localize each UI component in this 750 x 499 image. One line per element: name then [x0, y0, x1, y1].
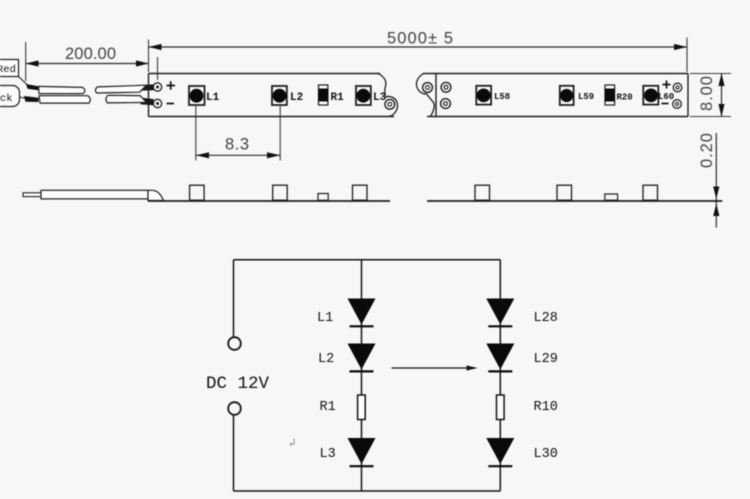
- side bump R1: [318, 194, 328, 201]
- svg-text:L28: L28: [534, 311, 558, 326]
- svg-text:200.00: 200.00: [65, 45, 116, 63]
- svg-text:L29: L29: [534, 352, 558, 367]
- strip piece 1 break (right torn edge): [379, 74, 386, 96]
- side view end cap: [148, 190, 164, 200]
- side view cable stub: [23, 193, 41, 197]
- extension line at strip left edge: [148, 40, 150, 73]
- minus mark right end: [662, 103, 669, 105]
- wire crimp black: [24, 96, 39, 102]
- red wire segment 1: [39, 86, 85, 93]
- schematic top wire: [234, 259, 501, 261]
- callout leader Red: [19, 77, 29, 86]
- svg-text:L3: L3: [320, 447, 336, 462]
- terminal center extension line: [157, 57, 159, 80]
- svg-text:L60: L60: [658, 92, 674, 102]
- dimension 200.00 extension line left: [25, 42, 27, 81]
- side bump L59: [557, 185, 572, 200]
- dimension 8.00 extension bottom: [690, 116, 731, 118]
- side view strip base right piece: [427, 200, 722, 202]
- side bump L1: [190, 185, 205, 200]
- black wire segment 2: [106, 95, 147, 103]
- break donut on piece 1: [385, 99, 395, 109]
- svg-text:R20: R20: [617, 93, 633, 103]
- LED L60: [643, 86, 658, 105]
- solder blob + terminal: [141, 84, 154, 90]
- DC source terminal lower: [228, 402, 241, 415]
- diode L1: [348, 299, 376, 325]
- continuation arrow: [392, 367, 475, 369]
- terminal pad - (left end): [153, 99, 161, 107]
- svg-text:L59: L59: [578, 92, 594, 102]
- diode L30: [486, 438, 514, 464]
- dimension 200.00 line: [26, 63, 149, 65]
- black wire segment 1: [39, 96, 90, 103]
- dimension 5000 line: [149, 46, 688, 48]
- svg-text:L58: L58: [494, 92, 510, 102]
- svg-text:L2: L2: [318, 352, 334, 367]
- diode L28: [486, 299, 514, 325]
- terminal pad + (left end): [153, 83, 161, 91]
- strip piece 2 break (left torn edge): [416, 74, 434, 117]
- dimension 8.3 extension line from L2: [279, 105, 281, 161]
- svg-text:L30: L30: [534, 447, 558, 462]
- plus mark right end: [663, 81, 671, 89]
- callout box Black: [0, 86, 20, 107]
- callout leader Black: [20, 97, 27, 99]
- resistor R10 (schematic): [497, 395, 505, 420]
- side bump R20: [605, 194, 618, 200]
- side bump L3: [353, 185, 368, 200]
- break donut on piece 2: [423, 83, 433, 93]
- svg-text:0.20: 0.20: [698, 133, 716, 168]
- red wire segment 2: [95, 85, 146, 93]
- diode L3: [348, 438, 376, 464]
- terminal pad + (right end): [673, 83, 682, 92]
- terminal pad piece2 upper: [441, 82, 451, 92]
- terminal pad - (right end): [673, 100, 682, 109]
- svg-text:↲: ↲: [289, 438, 296, 450]
- side bump L58: [475, 185, 490, 200]
- LED L1: [189, 86, 205, 105]
- LED L2: [272, 86, 287, 105]
- solder blob - terminal: [141, 98, 154, 106]
- dimension 200.00 arrow left: [26, 60, 39, 66]
- svg-text:DC 12V: DC 12V: [206, 374, 270, 394]
- dimension 0.20 arrow lower: [713, 204, 719, 217]
- dimension 5000 arrow left: [149, 44, 162, 50]
- dimension 200.00 arrow right: [136, 60, 149, 66]
- side bump L2: [273, 185, 288, 200]
- dimension 8.3 extension line from L1: [195, 105, 197, 161]
- resistor R1 (schematic): [358, 395, 366, 420]
- callout box Red: [0, 60, 19, 77]
- side view strip base left piece: [148, 200, 390, 202]
- svg-text:L1: L1: [317, 311, 333, 326]
- svg-text:L1: L1: [206, 92, 220, 104]
- LED L58: [476, 86, 491, 105]
- strip piece 2 body: [423, 74, 688, 117]
- dimension 8.00 arrow top: [718, 74, 724, 87]
- extension line at strip right edge: [686, 38, 688, 73]
- schematic bottom wire: [234, 490, 501, 492]
- dimension 8.3 arrow left: [196, 152, 209, 158]
- terminal pad piece2 lower: [441, 99, 451, 109]
- LED L3: [356, 86, 371, 105]
- svg-text:R10: R10: [534, 400, 558, 415]
- dimension 8.3 line: [196, 154, 280, 156]
- svg-text:8.00: 8.00: [698, 76, 716, 111]
- diode L29: [486, 344, 514, 370]
- dimension 0.20 arrow upper: [713, 187, 719, 200]
- svg-text:R1: R1: [320, 400, 336, 415]
- svg-text:R1: R1: [331, 92, 345, 104]
- resistor R20 (top view chip): [605, 85, 615, 105]
- dimension 8.00 line: [721, 74, 723, 117]
- side view cable body: [41, 190, 148, 199]
- wire crimp red: [26, 84, 39, 90]
- svg-text:L3: L3: [373, 92, 387, 104]
- dimension 0.20 line: [715, 133, 717, 228]
- strip piece 1 body: [149, 74, 395, 117]
- branch 1 wire: [361, 260, 363, 491]
- svg-text:Black: Black: [0, 93, 13, 105]
- svg-text:L2: L2: [290, 92, 303, 104]
- diode L2: [348, 344, 376, 370]
- schematic left wire lower: [233, 415, 235, 491]
- side bump L60: [643, 185, 658, 200]
- LED L59: [560, 86, 574, 105]
- dimension 8.00 extension top: [690, 73, 731, 75]
- svg-text:Red: Red: [0, 64, 16, 76]
- dimension 5000 arrow right: [674, 44, 687, 50]
- branch 2 wire (right side of loop): [499, 260, 501, 491]
- svg-text:8.3: 8.3: [225, 136, 249, 154]
- dimension 8.00 arrow bottom: [718, 104, 724, 117]
- minus mark left end: [167, 103, 175, 105]
- resistor R1 (top view chip): [319, 85, 328, 105]
- dimension 8.3 arrow right: [267, 152, 280, 158]
- svg-text:5000± 5: 5000± 5: [387, 30, 453, 48]
- DC source terminal upper: [228, 337, 241, 350]
- plus mark left end: [167, 81, 176, 89]
- schematic left wire upper: [233, 260, 235, 338]
